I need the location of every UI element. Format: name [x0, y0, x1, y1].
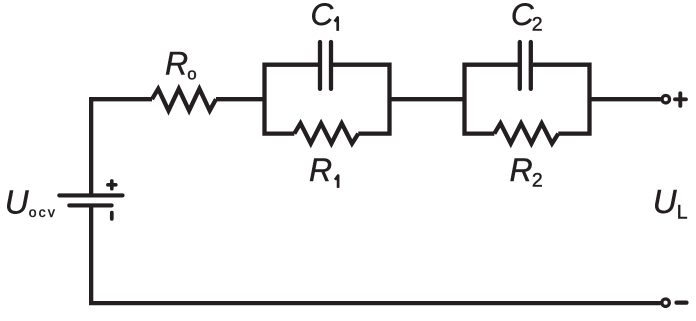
battery U_ocv short plate (-) [69, 203, 111, 207]
capacitor C1 plate 2 [329, 42, 333, 89]
capacitor C2 plate 1 [518, 42, 522, 89]
svg-text:2: 2 [532, 13, 543, 35]
node: block2 frame left [465, 65, 519, 134]
capacitor C2 plate 2 [529, 42, 533, 89]
svg-text:ocv: ocv [29, 204, 57, 220]
terminal bottom right [662, 299, 669, 306]
label C1 subscript 1 [335, 17, 338, 31]
svg-text:R: R [309, 152, 332, 188]
svg-text:R: R [510, 152, 533, 188]
terminal minus sign (bottom right) [677, 301, 687, 305]
node: block1 frame right [333, 65, 390, 134]
capacitor C1 plate 1 [318, 42, 322, 89]
svg-text:2: 2 [532, 169, 543, 191]
wire: block2 to top terminal [590, 97, 661, 101]
svg-text:C: C [311, 0, 334, 32]
wire: Ro to block1 [216, 97, 265, 101]
svg-text:U: U [653, 183, 677, 220]
wire: left vertical and top horizontal to R_o [91, 99, 152, 194]
battery plus sign [108, 181, 116, 189]
wire: block1 to block2 [390, 97, 465, 101]
svg-text:o: o [187, 65, 196, 84]
label R1 subscript 1 [335, 176, 338, 188]
terminal plus sign (top right) [675, 93, 686, 106]
svg-text:U: U [5, 183, 29, 220]
svg-text:C: C [511, 0, 534, 32]
resistor R2 [494, 123, 558, 143]
wire: battery to bottom rail to bottom terminal [91, 206, 660, 303]
battery U_ocv long plate (+) [59, 193, 122, 197]
node: block1 frame left [265, 65, 319, 134]
node: block2 frame right [533, 65, 590, 134]
svg-text:L: L [677, 202, 688, 224]
svg-text:R: R [165, 45, 188, 81]
resistor Ro [152, 89, 216, 111]
resistor R1 [294, 123, 358, 143]
terminal top right [662, 96, 669, 103]
battery minus tick [110, 213, 114, 219]
